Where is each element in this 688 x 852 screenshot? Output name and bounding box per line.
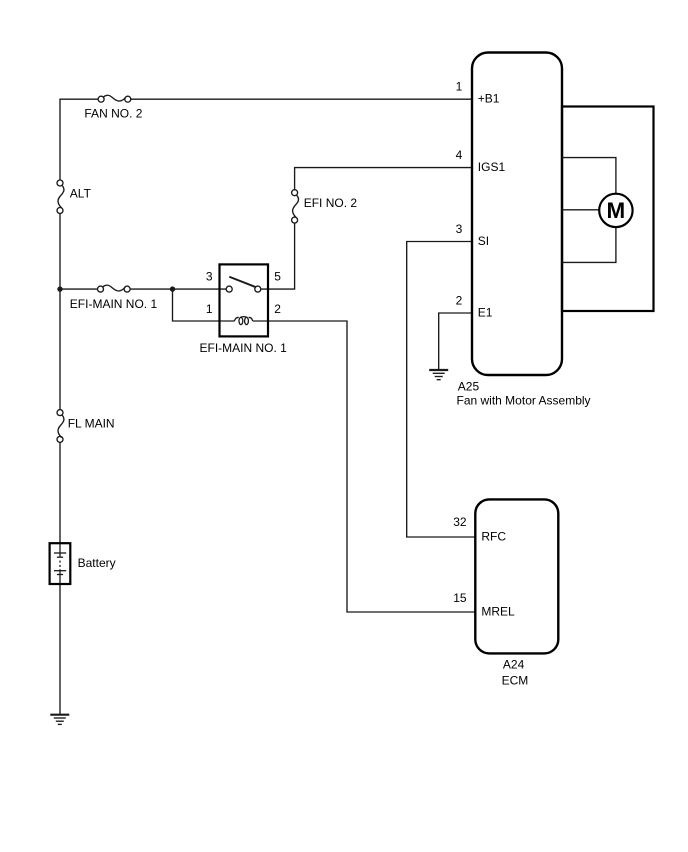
wire: motor branch lower (562, 227, 616, 263)
svg-text:MREL: MREL (481, 604, 515, 618)
svg-text:2: 2 (456, 293, 463, 307)
svg-text:RFC: RFC (481, 529, 506, 543)
wire: EFI-MAIN NO.1 fuse feed (60, 288, 98, 290)
svg-text:1: 1 (206, 302, 213, 316)
relay switch contact circles (226, 286, 232, 292)
battery (50, 543, 116, 584)
motor assembly enclosure box (562, 107, 654, 312)
motor M (599, 194, 632, 227)
wire: motor branch middle (562, 209, 599, 211)
svg-text:5: 5 (274, 269, 281, 283)
svg-text:Fan with Motor Assembly: Fan with Motor Assembly (457, 393, 591, 407)
fusible link FL MAIN (57, 410, 115, 443)
svg-text:15: 15 (453, 591, 467, 605)
wire: junction down to relay coil pin 1 (173, 289, 235, 321)
relay EFI-MAIN NO. 1 (200, 264, 288, 355)
svg-text:IGS1: IGS1 (478, 160, 506, 174)
wire: battery negative to ground (59, 584, 61, 715)
connector A25 Fan with Motor Assembly (456, 53, 591, 408)
relay switch blade (229, 277, 255, 287)
svg-text:3: 3 (206, 269, 213, 283)
fusible link ALT (57, 180, 92, 214)
svg-text:ALT: ALT (70, 187, 92, 201)
svg-text:+B1: +B1 (478, 92, 500, 106)
wire: left vertical column below FL MAIN to battery (59, 442, 61, 543)
wire: SI (A25 pin 3) to RFC (A24 pin 32) (407, 242, 476, 538)
wire: E1 (A25 pin 2) to ground (439, 313, 472, 370)
svg-text:1: 1 (456, 80, 463, 94)
wire: motor branch upper (562, 158, 616, 194)
svg-text:EFI-MAIN NO. 1: EFI-MAIN NO. 1 (70, 297, 158, 311)
svg-text:EFI-MAIN NO. 1: EFI-MAIN NO. 1 (200, 341, 288, 355)
wire: relay coil pin 2 to MREL (A24 pin 15) (253, 321, 476, 612)
ground: E1 pin of A25 (429, 370, 448, 380)
svg-text:Battery: Battery (78, 556, 116, 570)
relay coil (234, 317, 252, 325)
svg-text:FL MAIN: FL MAIN (68, 417, 115, 431)
svg-text:A24: A24 (503, 658, 525, 672)
ground: battery negative (50, 715, 69, 725)
svg-text:FAN NO. 2: FAN NO. 2 (84, 107, 142, 121)
svg-text:2: 2 (274, 302, 281, 316)
connector A24 ECM (453, 499, 558, 687)
svg-text:SI: SI (478, 234, 489, 248)
wire: relay pin 5 up to EFI NO.2 fuse (261, 223, 295, 289)
svg-text:A25: A25 (458, 380, 480, 394)
svg-text:32: 32 (453, 515, 467, 529)
svg-text:E1: E1 (478, 305, 493, 319)
svg-text:4: 4 (456, 148, 463, 162)
wire: left vertical column below ALT (59, 213, 61, 409)
fuse FAN NO. 2 (84, 95, 142, 120)
svg-text:3: 3 (456, 222, 463, 236)
fuse EFI NO. 2 (292, 190, 358, 223)
junction: fuse out / relay pins 3 and 1 (170, 286, 175, 291)
svg-text:ECM: ECM (502, 674, 529, 688)
junction: left column / fuse feed (57, 286, 62, 291)
wire: top +B1 bus from left column to A25 pin 1 (60, 99, 98, 180)
svg-text:M: M (607, 198, 626, 223)
fuse EFI-MAIN NO. 1 (70, 285, 158, 311)
svg-text:EFI NO. 2: EFI NO. 2 (304, 196, 358, 210)
wire: EFI NO.2 fuse to IGS1 (A25 pin 4) (295, 168, 472, 190)
